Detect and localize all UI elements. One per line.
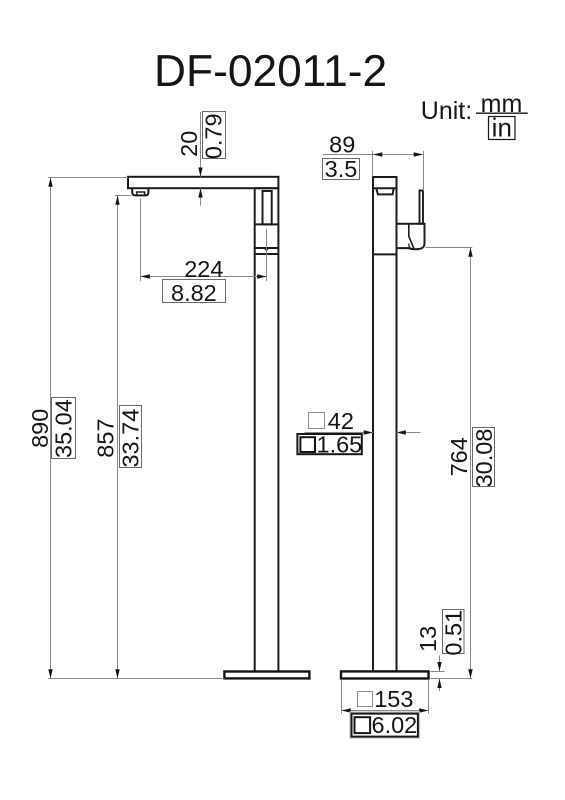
spout body (128, 177, 278, 188)
box 35.04 (51, 398, 77, 459)
label 20 (176, 131, 202, 157)
ext base bottom right (431, 678, 473, 680)
ext 764 top (426, 247, 473, 249)
dim 89 (323, 152, 424, 156)
svg-text:224: 224 (184, 256, 223, 282)
label 224 (184, 256, 223, 282)
dim 13 (437, 656, 441, 692)
svg-text:0.51: 0.51 (440, 610, 466, 656)
box 3.5 (323, 156, 360, 182)
ext 89 right (423, 151, 425, 191)
handle body side (397, 224, 425, 250)
column joint side (373, 253, 397, 255)
svg-text:20: 20 (176, 131, 202, 157)
svg-text:890: 890 (27, 409, 53, 448)
svg-text:6.02: 6.02 (372, 712, 418, 738)
svg-text:33.74: 33.74 (118, 409, 144, 468)
svg-text:3.5: 3.5 (325, 156, 358, 182)
dim 764 line (468, 248, 472, 679)
svg-text:1.65: 1.65 (317, 431, 363, 457)
aerator side (376, 189, 393, 195)
box square 1.65 (297, 431, 362, 457)
svg-text:764: 764 (446, 437, 472, 476)
svg-text:89: 89 (329, 132, 355, 158)
dim square42 (305, 430, 421, 434)
box 0.79 (201, 112, 227, 160)
body side (373, 177, 397, 671)
unit legend (421, 90, 528, 143)
lever side (420, 191, 424, 224)
base plate front (224, 672, 309, 679)
base plate side (341, 671, 429, 678)
svg-text:Unit:: Unit: (421, 97, 472, 125)
svg-text:8.82: 8.82 (171, 280, 217, 306)
ext 89 left (372, 151, 374, 177)
title DF-02011-2 (154, 47, 387, 96)
lever front (263, 191, 272, 224)
svg-text:13: 13 (415, 626, 441, 652)
aerator outlet notch (137, 192, 145, 195)
ext line aerator bottom (115, 195, 131, 197)
box 8.82 (163, 280, 226, 306)
svg-text:0.79: 0.79 (201, 113, 227, 159)
svg-text:857: 857 (92, 418, 118, 457)
svg-text:153: 153 (374, 686, 413, 712)
dim 224 line (141, 274, 267, 278)
svg-text:DF-02011-2: DF-02011-2 (154, 47, 387, 96)
dim 20 (198, 112, 202, 206)
box 0.51 (440, 610, 466, 656)
spout underside line (373, 187, 397, 189)
dim 153 line (342, 708, 429, 712)
box square 6.02 (350, 712, 420, 738)
indicator mark (264, 248, 269, 251)
floor line (48, 678, 224, 680)
column front (255, 188, 279, 671)
label 764 (446, 437, 472, 476)
collar line lower (255, 253, 279, 255)
svg-text:30.08: 30.08 (471, 429, 497, 488)
ext 153 right (428, 680, 430, 714)
label 857 (92, 418, 118, 457)
label square 153 (358, 686, 414, 712)
handle base joint (255, 223, 279, 225)
svg-text:in: in (492, 113, 512, 143)
box 33.74 (118, 406, 144, 468)
label square 42 (309, 408, 354, 434)
ext 224 left (140, 199, 142, 282)
ext 153 left (341, 680, 343, 714)
ext base top right (431, 671, 445, 673)
collar line upper (255, 247, 279, 249)
label 13 (415, 626, 441, 652)
svg-text:35.04: 35.04 (51, 399, 77, 458)
ext line spout top left (48, 177, 128, 179)
dim 857 line (115, 196, 119, 679)
dim 890 line (48, 178, 52, 679)
svg-text:42: 42 (328, 408, 354, 434)
ext 224 right (266, 229, 268, 281)
aerator (132, 188, 148, 195)
label 89 (329, 132, 355, 158)
label 890 (27, 409, 53, 448)
box 30.08 (471, 428, 497, 488)
